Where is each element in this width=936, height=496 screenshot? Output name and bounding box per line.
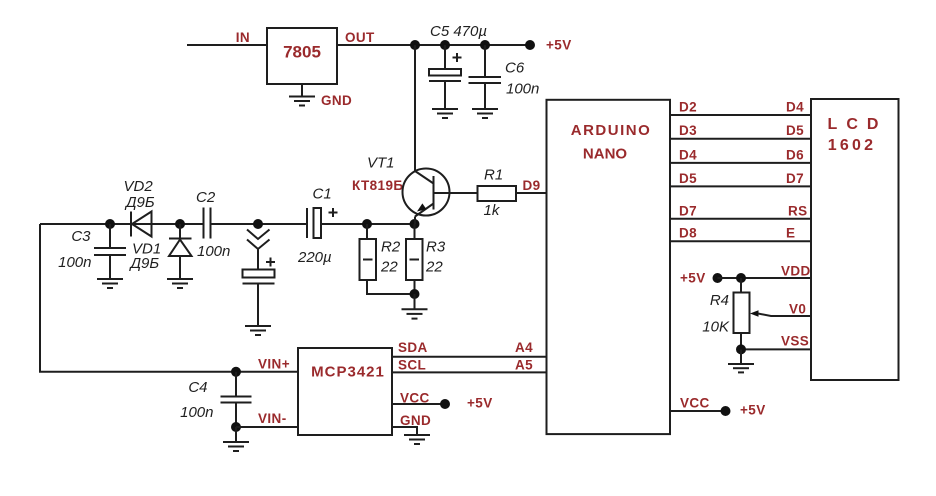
label C1 220u bbox=[297, 249, 332, 266]
wire VCC mcp bbox=[392, 403, 445, 405]
capacitor C2 bbox=[204, 208, 211, 239]
label GND 7805 bbox=[321, 93, 352, 108]
label VD2 bbox=[124, 178, 154, 195]
svg-text:C4: C4 bbox=[188, 379, 207, 396]
svg-text:22: 22 bbox=[380, 258, 398, 275]
label D6 right bbox=[786, 147, 804, 162]
node terminal vcc arduino bbox=[721, 406, 731, 416]
svg-text:OUT: OUT bbox=[345, 30, 375, 45]
label SCL bbox=[398, 358, 426, 373]
IC MCP3421 box bbox=[298, 348, 392, 435]
svg-text:Д9Б: Д9Б bbox=[124, 194, 155, 211]
node junction C3 bbox=[105, 219, 115, 229]
wire R1 to arduino bbox=[516, 192, 547, 194]
svg-text:220µ: 220µ bbox=[297, 249, 332, 266]
wire D2-D4 bbox=[670, 114, 812, 116]
label RS bbox=[788, 203, 808, 218]
svg-text:RS: RS bbox=[788, 203, 808, 218]
svg-text:V0: V0 bbox=[789, 302, 806, 317]
svg-text:D4: D4 bbox=[679, 147, 697, 162]
capacitor C6 bbox=[469, 45, 502, 109]
label C3 bbox=[71, 228, 91, 245]
wire base lead bbox=[434, 192, 478, 194]
svg-text:VDD: VDD bbox=[781, 264, 811, 279]
svg-text:D5: D5 bbox=[786, 123, 804, 138]
capacitor C4 bbox=[221, 372, 252, 427]
label VDD bbox=[781, 264, 811, 279]
wire main rail right bbox=[322, 223, 415, 225]
wire D7-RS bbox=[670, 218, 812, 220]
label VD2 D9B bbox=[124, 194, 155, 211]
label VCC mcp bbox=[400, 391, 430, 406]
label C1 bbox=[313, 186, 332, 203]
wire collector drop bbox=[414, 45, 416, 171]
svg-text:7805: 7805 bbox=[283, 43, 321, 62]
wire D5-D7 bbox=[670, 185, 812, 187]
wire SCL-A5 bbox=[392, 371, 547, 373]
label D3 bbox=[679, 123, 697, 138]
diode VD1 bbox=[169, 224, 192, 279]
ground C3 bbox=[97, 279, 123, 288]
wire OUT to +5V rail bbox=[337, 44, 530, 46]
wire VCC arduino bbox=[671, 410, 726, 412]
svg-text:GND: GND bbox=[400, 413, 431, 428]
capacitor C5 bbox=[429, 45, 462, 109]
label C6 bbox=[505, 60, 525, 77]
svg-text:A5: A5 bbox=[515, 358, 533, 373]
svg-text:VD2: VD2 bbox=[124, 178, 154, 195]
wire VSS bbox=[741, 348, 811, 350]
resistor R2 bbox=[360, 224, 415, 294]
label IN bbox=[236, 30, 250, 45]
ground mcp bbox=[404, 435, 430, 444]
svg-text:КТ819Б: КТ819Б bbox=[352, 178, 403, 193]
svg-text:100n: 100n bbox=[197, 243, 230, 260]
node junction R2 R3 bottom bbox=[410, 289, 420, 299]
label SDA bbox=[398, 340, 428, 355]
label +5V arduino bbox=[740, 403, 766, 418]
IC arduino nano box bbox=[547, 100, 671, 434]
label +5V top bbox=[546, 38, 572, 53]
ground C6 bbox=[472, 109, 498, 118]
svg-text:D7: D7 bbox=[679, 203, 697, 218]
svg-text:C6: C6 bbox=[505, 60, 525, 77]
regulator U 7805 box bbox=[267, 28, 337, 84]
label D4 bbox=[679, 147, 697, 162]
svg-text:VCC: VCC bbox=[680, 396, 710, 411]
svg-text:C1: C1 bbox=[313, 186, 332, 203]
label A4 bbox=[515, 340, 533, 355]
label D5 right bbox=[786, 123, 804, 138]
resistor R1 bbox=[478, 186, 517, 201]
svg-text:ARDUINO: ARDUINO bbox=[571, 122, 652, 139]
label R1 1k bbox=[484, 202, 501, 219]
label C5 470u bbox=[430, 23, 487, 40]
svg-text:MCP3421: MCP3421 bbox=[311, 364, 385, 381]
ground VSS bbox=[728, 364, 754, 372]
node junction VD1 bbox=[175, 219, 185, 229]
node terminal +5V mcp bbox=[440, 399, 450, 409]
potentiometer R4 bbox=[734, 278, 812, 349]
label D8 bbox=[679, 226, 697, 241]
label C2 bbox=[196, 189, 216, 206]
svg-text:LCD: LCD bbox=[828, 116, 888, 133]
label VD1 D9B bbox=[129, 255, 160, 272]
ground R3 bbox=[402, 309, 428, 318]
svg-text:+5V: +5V bbox=[740, 403, 766, 418]
svg-text:A4: A4 bbox=[515, 340, 533, 355]
svg-text:C2: C2 bbox=[196, 189, 216, 206]
svg-text:R4: R4 bbox=[710, 292, 729, 309]
label V0 bbox=[789, 302, 806, 317]
capacitor electrolytic probe bbox=[243, 249, 276, 326]
node terminal +5V top bbox=[525, 40, 535, 50]
svg-text:+5V: +5V bbox=[680, 271, 706, 286]
label GND mcp bbox=[400, 413, 431, 428]
node junction R2 bbox=[362, 219, 372, 229]
svg-text:C3: C3 bbox=[71, 228, 91, 245]
label C2 100n bbox=[197, 243, 230, 260]
svg-text:D4: D4 bbox=[786, 100, 804, 115]
probe chevrons bbox=[247, 230, 270, 250]
label C3 100n bbox=[58, 254, 91, 271]
svg-text:22: 22 bbox=[425, 258, 443, 275]
wire main rail mid bbox=[212, 223, 308, 225]
svg-text:R2: R2 bbox=[381, 239, 401, 256]
svg-text:SCL: SCL bbox=[398, 358, 426, 373]
svg-text:E: E bbox=[786, 226, 795, 241]
svg-text:IN: IN bbox=[236, 30, 250, 45]
svg-text:+5V: +5V bbox=[467, 396, 493, 411]
svg-text:1k: 1k bbox=[484, 202, 501, 219]
wire D8-E bbox=[670, 240, 812, 242]
label +5V vdd bbox=[680, 271, 706, 286]
svg-text:VIN+: VIN+ bbox=[258, 357, 290, 372]
label R3 bbox=[426, 239, 446, 256]
label A5 bbox=[515, 358, 533, 373]
label D2 bbox=[679, 100, 697, 115]
svg-text:100n: 100n bbox=[506, 81, 539, 98]
svg-text:100n: 100n bbox=[180, 404, 213, 421]
label +5V mcp bbox=[467, 396, 493, 411]
node junction C6 bbox=[480, 40, 490, 50]
svg-text:1602: 1602 bbox=[828, 137, 876, 154]
svg-text:C5 470µ: C5 470µ bbox=[430, 23, 487, 40]
svg-text:R1: R1 bbox=[484, 167, 503, 184]
label VD1 bbox=[132, 241, 161, 258]
wire IN lead bbox=[187, 44, 267, 46]
label D7 right bbox=[786, 171, 804, 186]
capacitor C1 bbox=[307, 208, 338, 238]
ground C4 bbox=[223, 442, 249, 451]
label E bbox=[786, 226, 795, 241]
svg-text:D5: D5 bbox=[679, 171, 697, 186]
svg-text:D3: D3 bbox=[679, 123, 697, 138]
svg-text:VIN-: VIN- bbox=[258, 411, 287, 426]
wire main rail left bbox=[40, 223, 203, 225]
label C4 100n bbox=[180, 404, 213, 421]
label R4 10K bbox=[702, 319, 730, 336]
svg-text:D9: D9 bbox=[523, 178, 541, 193]
svg-text:VT1: VT1 bbox=[367, 155, 395, 172]
capacitor C3 bbox=[94, 224, 126, 279]
svg-text:10K: 10K bbox=[702, 319, 730, 336]
label KT819B bbox=[352, 178, 403, 193]
svg-text:D2: D2 bbox=[679, 100, 697, 115]
label VT1 bbox=[367, 155, 395, 172]
wire GND mcp bbox=[392, 427, 417, 435]
svg-text:+5V: +5V bbox=[546, 38, 572, 53]
label R2 bbox=[381, 239, 401, 256]
label D5 bbox=[679, 171, 697, 186]
svg-text:VSS: VSS bbox=[781, 333, 809, 348]
wire D3-D5 bbox=[670, 138, 812, 140]
label R2 22 bbox=[380, 258, 398, 275]
wire D4-D6 bbox=[670, 162, 812, 164]
ground 7805 bbox=[289, 97, 315, 106]
node junction emitter bbox=[410, 219, 420, 229]
label VIN- bbox=[258, 411, 287, 426]
label D9 bbox=[523, 178, 541, 193]
label C6 100n bbox=[506, 81, 539, 98]
wire VIN- lead bbox=[236, 426, 298, 428]
label OUT bbox=[345, 30, 375, 45]
label R3 22 bbox=[425, 258, 443, 275]
ground VD1 bbox=[167, 279, 193, 288]
IC LCD 1602 box bbox=[811, 99, 899, 380]
node junction VIN- bbox=[231, 422, 241, 432]
svg-text:SDA: SDA bbox=[398, 340, 428, 355]
node junction probe bbox=[253, 219, 263, 229]
diode VD2 bbox=[131, 212, 152, 237]
label VCC arduino bbox=[680, 396, 710, 411]
svg-text:GND: GND bbox=[321, 93, 352, 108]
label R1 bbox=[484, 167, 503, 184]
wire VSS ground stem bbox=[740, 349, 742, 364]
node junction collector drop bbox=[410, 40, 420, 50]
node junction R4 top bbox=[736, 273, 746, 283]
svg-text:D6: D6 bbox=[786, 147, 804, 162]
label VIN+ bbox=[258, 357, 290, 372]
ground probe cap bbox=[245, 326, 271, 335]
transistor VT1 bbox=[403, 169, 450, 225]
svg-text:D8: D8 bbox=[679, 226, 697, 241]
wire SDA-A4 bbox=[392, 356, 547, 358]
node junction C5 bbox=[440, 40, 450, 50]
label R4 bbox=[710, 292, 729, 309]
svg-text:NANO: NANO bbox=[583, 146, 627, 163]
wire R3 ground stem bbox=[414, 294, 416, 309]
label VSS bbox=[781, 333, 809, 348]
wire 7805 GND stem bbox=[301, 84, 303, 97]
svg-text:R3: R3 bbox=[426, 239, 446, 256]
wire VDD bbox=[718, 277, 812, 279]
svg-text:100n: 100n bbox=[58, 254, 91, 271]
svg-text:D7: D7 bbox=[786, 171, 804, 186]
node junction VIN+ bbox=[231, 367, 241, 377]
node terminal vdd bbox=[713, 273, 723, 283]
wire left loop down bbox=[40, 224, 299, 372]
label D4 right bbox=[786, 100, 804, 115]
ground C5 bbox=[432, 109, 458, 118]
resistor R3 bbox=[406, 224, 423, 294]
svg-text:Д9Б: Д9Б bbox=[129, 255, 160, 272]
node junction VSS bbox=[736, 344, 746, 354]
label C4 bbox=[188, 379, 207, 396]
label D7 bbox=[679, 203, 697, 218]
wire C4 ground stem bbox=[235, 427, 237, 442]
